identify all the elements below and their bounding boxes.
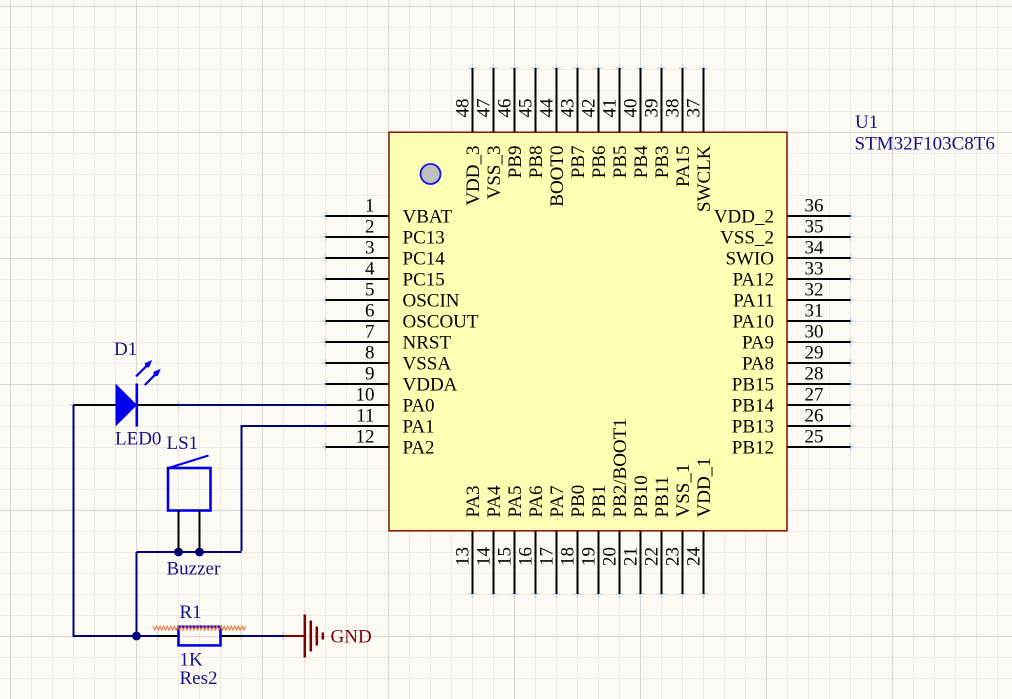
svg-text:20: 20: [600, 547, 621, 566]
svg-text:PB0: PB0: [568, 485, 589, 518]
wire: horizontal into pin 11 PA1: [241, 425, 328, 427]
resistor R1 orange squiggle marker: [153, 626, 246, 630]
U1 pin 28 (PB15) right side: [732, 364, 851, 396]
U1 pin 44 (BOOT0) top side: [537, 68, 569, 207]
U1 pin 21 (PB10) bottom side: [621, 475, 653, 594]
svg-text:6: 6: [365, 301, 375, 322]
resistor R1 left pin: [158, 635, 179, 637]
svg-text:33: 33: [805, 259, 824, 280]
LED D1 light ray arrow 1: [136, 360, 152, 376]
svg-text:36: 36: [805, 196, 824, 217]
svg-text:44: 44: [537, 98, 558, 118]
svg-text:PB5: PB5: [610, 146, 631, 179]
svg-text:VSS_3: VSS_3: [484, 146, 505, 200]
svg-text:STM32F103C8T6: STM32F103C8T6: [855, 134, 995, 155]
IC U1 STM32F103C8T6 microcontroller body: [389, 132, 787, 531]
U1 pin 4 (PC15) left side: [326, 259, 445, 291]
U1 pin 32 (PA11) right side: [733, 280, 850, 312]
svg-text:PA5: PA5: [505, 485, 526, 517]
svg-text:VDD_1: VDD_1: [694, 457, 715, 517]
U1 pin 40 (PB4) top side: [621, 68, 653, 178]
pin hotspot markers (editor grid marks): [70, 64, 855, 640]
svg-text:VSS_1: VSS_1: [673, 464, 694, 518]
svg-text:22: 22: [642, 547, 663, 566]
buzzer LS1 pin 2: [199, 510, 201, 552]
svg-text:41: 41: [600, 99, 621, 118]
svg-text:PA6: PA6: [526, 485, 547, 517]
svg-text:PB11: PB11: [652, 476, 673, 518]
svg-text:R1: R1: [180, 602, 202, 623]
U1 pin 46 (PB9) top side: [495, 68, 527, 178]
svg-text:PC13: PC13: [403, 228, 445, 249]
U1 pin 2 (PC13) left side: [326, 217, 445, 249]
svg-text:PB6: PB6: [589, 146, 610, 179]
resistor R1 body rectangle: [179, 627, 221, 646]
svg-text:PA4: PA4: [484, 485, 505, 518]
svg-text:GND: GND: [331, 627, 372, 648]
svg-text:PA2: PA2: [403, 438, 435, 459]
svg-text:U1: U1: [855, 112, 878, 133]
U1 pin 7 (NRST) left side: [326, 322, 452, 354]
svg-text:OSCOUT: OSCOUT: [403, 312, 479, 333]
svg-text:VBAT: VBAT: [403, 207, 453, 228]
U1 pin 18 (PB0) bottom side: [558, 485, 590, 594]
svg-text:39: 39: [642, 99, 663, 118]
svg-text:PB15: PB15: [732, 375, 774, 396]
svg-text:LED0: LED0: [115, 429, 161, 450]
wire: junction to resistor R1 left pin: [137, 635, 158, 637]
svg-text:Buzzer: Buzzer: [167, 559, 221, 580]
U1 pin 48 (VDD_3) top side: [453, 68, 485, 206]
svg-text:PA7: PA7: [547, 485, 568, 517]
svg-text:OSCIN: OSCIN: [403, 291, 460, 312]
LED D1 left (anode) pin: [74, 404, 117, 406]
U1 pin 17 (PA7) bottom side: [537, 485, 569, 594]
svg-text:VDD_2: VDD_2: [714, 207, 774, 228]
U1 pin 43 (PB7) top side: [558, 68, 590, 178]
wire: buzzer row up to pin 11 (PA1): [241, 426, 243, 551]
U1 pin 19 (PB1) bottom side: [579, 485, 611, 594]
svg-text:3: 3: [365, 238, 375, 259]
svg-text:PA1: PA1: [403, 417, 435, 438]
svg-text:PB8: PB8: [526, 146, 547, 179]
U1 pin 13 (PA3) bottom side: [453, 485, 485, 594]
svg-text:PC14: PC14: [403, 249, 446, 270]
svg-text:19: 19: [579, 547, 600, 566]
svg-text:15: 15: [495, 547, 516, 566]
svg-text:PA9: PA9: [742, 333, 774, 354]
U1 pin 1 (VBAT) left side: [326, 196, 453, 228]
svg-text:8: 8: [365, 343, 375, 364]
junction: buzzer pin 1 on wire: [174, 548, 183, 557]
U1 pin 37 (SWCLK) top side: [684, 68, 716, 212]
svg-text:5: 5: [365, 280, 375, 301]
svg-text:31: 31: [805, 301, 824, 322]
svg-text:PA15: PA15: [673, 146, 694, 188]
svg-text:21: 21: [621, 547, 642, 566]
U1 pin 22 (PB11) bottom side: [642, 476, 674, 594]
U1 pin 36 (VDD_2) right side: [714, 196, 851, 228]
U1 pin 12 (PA2) left side: [326, 427, 435, 459]
svg-text:26: 26: [805, 406, 824, 427]
svg-text:PB9: PB9: [505, 146, 526, 179]
svg-text:PB4: PB4: [631, 145, 652, 178]
svg-text:7: 7: [365, 322, 375, 343]
U1 pin 6 (OSCOUT) left side: [326, 301, 479, 333]
svg-text:35: 35: [805, 217, 824, 238]
U1 pin 30 (PA9) right side: [742, 322, 851, 354]
svg-text:28: 28: [805, 364, 824, 385]
U1 pin 39 (PB3) top side: [642, 68, 674, 178]
svg-text:43: 43: [558, 99, 579, 118]
U1 pin 47 (VSS_3) top side: [474, 68, 506, 199]
buzzer LS1 top diagonal lever: [169, 456, 209, 469]
svg-text:PA10: PA10: [732, 312, 774, 333]
svg-text:9: 9: [365, 364, 375, 385]
U1 pin 10 (PA0) left side: [326, 385, 435, 417]
svg-text:PA8: PA8: [742, 354, 774, 375]
LED D1 right (cathode) pin: [137, 404, 179, 406]
svg-text:SWIO: SWIO: [725, 249, 774, 270]
U1 pin 35 (VSS_2) right side: [720, 217, 850, 249]
wire: junction up to buzzer row: [136, 552, 138, 637]
svg-text:25: 25: [805, 427, 824, 448]
U1 pin-1 marker circle: [421, 164, 441, 184]
svg-text:PB10: PB10: [631, 475, 652, 517]
wire: bottom left horizontal to junction: [73, 635, 137, 637]
svg-text:42: 42: [579, 99, 600, 118]
svg-text:LS1: LS1: [167, 433, 199, 454]
U1 pin 8 (VSSA) left side: [326, 343, 452, 375]
U1 pin 26 (PB13) right side: [732, 406, 851, 438]
svg-text:46: 46: [495, 99, 516, 118]
U1 pin 3 (PC14) left side: [326, 238, 446, 270]
U1 pin 38 (PA15) top side: [663, 68, 695, 187]
junction: LED / buzzer / resistor node: [132, 632, 141, 641]
svg-text:23: 23: [663, 547, 684, 566]
ground bar 3: [316, 627, 319, 646]
svg-text:PC15: PC15: [403, 270, 445, 291]
svg-text:PA11: PA11: [733, 291, 774, 312]
U1 pin 41 (PB5) top side: [600, 68, 632, 178]
wire: LED D1 anode down the left side: [73, 405, 75, 637]
U1 pin 15 (PA5) bottom side: [495, 485, 527, 594]
U1 pin 31 (PA10) right side: [732, 301, 850, 333]
svg-text:27: 27: [805, 385, 824, 406]
resistor R1 right pin: [221, 635, 242, 637]
U1 pin 24 (VDD_1) bottom side: [684, 457, 716, 594]
svg-text:NRST: NRST: [403, 333, 452, 354]
svg-text:PB3: PB3: [652, 146, 673, 179]
U1 pin 23 (VSS_1) bottom side: [663, 464, 695, 594]
U1 pin 9 (VDDA) left side: [326, 364, 458, 396]
svg-text:16: 16: [516, 547, 537, 566]
LED D1 triangle: [116, 384, 138, 427]
U1 pin 34 (SWIO) right side: [725, 238, 850, 270]
wire: buzzer row horizontal: [137, 551, 242, 553]
U1 pin 42 (PB6) top side: [579, 68, 611, 178]
svg-text:Res2: Res2: [180, 668, 218, 689]
svg-text:12: 12: [356, 427, 375, 448]
svg-text:40: 40: [621, 99, 642, 118]
U1 pin 14 (PA4) bottom side: [474, 485, 506, 594]
svg-text:VDD_3: VDD_3: [463, 146, 484, 206]
svg-text:10: 10: [356, 385, 375, 406]
wire: resistor R1 right pin to GND port: [241, 635, 284, 637]
junction: buzzer pin 2 on wire: [195, 548, 204, 557]
svg-text:14: 14: [474, 547, 495, 567]
svg-text:4: 4: [365, 259, 375, 280]
svg-text:47: 47: [474, 99, 495, 118]
svg-text:29: 29: [805, 343, 824, 364]
U1 pin 5 (OSCIN) left side: [326, 280, 460, 312]
U1 pin 25 (PB12) right side: [732, 427, 851, 459]
svg-text:PB12: PB12: [732, 438, 774, 459]
svg-text:34: 34: [805, 238, 825, 259]
svg-text:PB14: PB14: [732, 396, 775, 417]
svg-text:1: 1: [365, 196, 375, 217]
svg-text:32: 32: [805, 280, 824, 301]
svg-text:VSSA: VSSA: [403, 354, 452, 375]
buzzer LS1 pin 1: [178, 510, 180, 552]
ground bar 4: [322, 633, 325, 640]
ground bar 2: [310, 621, 313, 652]
svg-text:VDDA: VDDA: [403, 375, 458, 396]
svg-text:13: 13: [453, 547, 474, 566]
ground bar 1: [304, 615, 307, 658]
wire: LED cathode to pin 10 PA0: [179, 404, 328, 406]
svg-text:PB13: PB13: [732, 417, 774, 438]
LED D1 cathode bar: [136, 384, 139, 427]
svg-text:VSS_2: VSS_2: [720, 228, 774, 249]
svg-text:2: 2: [365, 217, 375, 238]
svg-text:PA0: PA0: [403, 396, 435, 417]
svg-text:BOOT0: BOOT0: [547, 146, 568, 207]
svg-text:38: 38: [663, 99, 684, 118]
svg-text:PB2/BOOT1: PB2/BOOT1: [610, 418, 631, 517]
U1 pin 33 (PA12) right side: [732, 259, 850, 291]
U1 pin 45 (PB8) top side: [516, 68, 548, 178]
svg-text:11: 11: [356, 406, 374, 427]
U1 pin 27 (PB14) right side: [732, 385, 851, 417]
LED D1 light ray arrow 2: [145, 369, 161, 385]
ground GND power port lead: [284, 635, 305, 637]
U1 pin 29 (PA8) right side: [742, 343, 851, 375]
svg-text:17: 17: [537, 547, 558, 566]
U1 pin 11 (PA1) left side: [326, 406, 435, 438]
buzzer LS1 body rectangle: [168, 468, 211, 511]
svg-text:37: 37: [684, 99, 705, 118]
svg-text:24: 24: [684, 547, 705, 567]
svg-text:SWCLK: SWCLK: [694, 145, 715, 212]
U1 pin 20 (PB2/BOOT1) bottom side: [600, 418, 632, 594]
svg-text:PB7: PB7: [568, 146, 589, 179]
svg-text:PA3: PA3: [463, 485, 484, 517]
svg-text:PA12: PA12: [732, 270, 774, 291]
svg-text:48: 48: [453, 99, 474, 118]
svg-text:18: 18: [558, 547, 579, 566]
svg-text:D1: D1: [114, 339, 137, 360]
U1 pin 16 (PA6) bottom side: [516, 485, 548, 594]
svg-text:45: 45: [516, 99, 537, 118]
svg-text:30: 30: [805, 322, 824, 343]
svg-text:PB1: PB1: [589, 485, 610, 518]
